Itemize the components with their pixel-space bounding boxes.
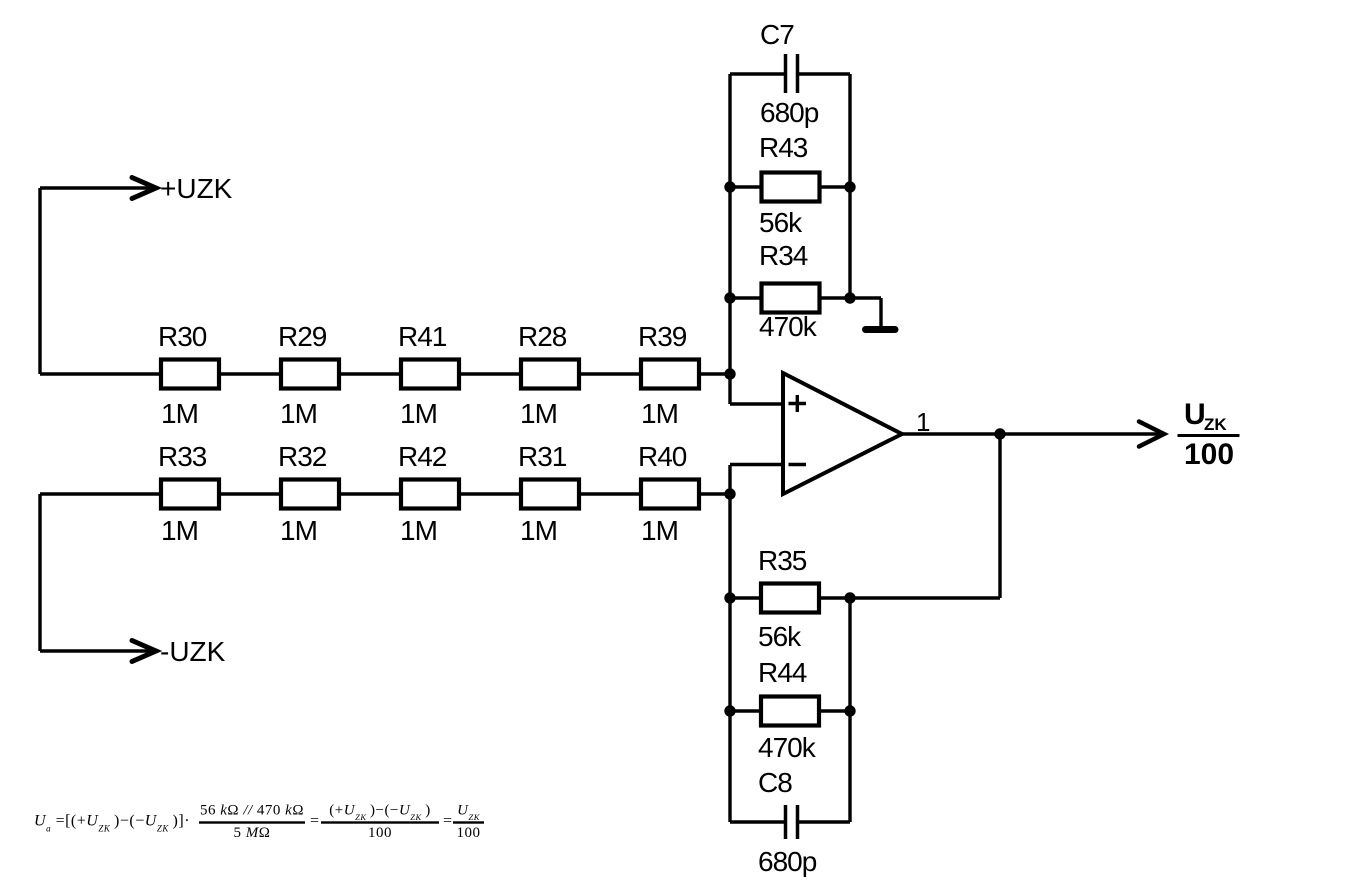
svg-text:1M: 1M	[520, 398, 557, 429]
svg-text:R33: R33	[158, 441, 207, 472]
svg-text:C8: C8	[758, 767, 792, 798]
svg-text:R35: R35	[758, 545, 807, 576]
svg-text:100: 100	[368, 825, 392, 841]
svg-text:100: 100	[1184, 438, 1234, 471]
svg-text:R29: R29	[278, 321, 327, 352]
svg-text:1M: 1M	[641, 398, 678, 429]
svg-text:1M: 1M	[280, 515, 317, 546]
svg-text:1: 1	[916, 407, 930, 437]
svg-text:R31: R31	[518, 441, 567, 472]
svg-text:R28: R28	[518, 321, 567, 352]
svg-text:5 MΩ: 5 MΩ	[234, 825, 271, 841]
svg-text:R44: R44	[758, 657, 807, 688]
svg-text:UZK: UZK	[457, 803, 481, 823]
svg-text:R40: R40	[638, 441, 687, 472]
svg-text:Ua =[(+UZK )−(−UZK )]·: Ua =[(+UZK )−(−UZK )]·	[34, 813, 190, 834]
svg-text:1M: 1M	[161, 515, 198, 546]
svg-text:R34: R34	[759, 240, 808, 271]
svg-text:1M: 1M	[400, 398, 437, 429]
svg-text:680p: 680p	[760, 97, 819, 128]
svg-text:+UZK: +UZK	[160, 173, 233, 204]
svg-text:470k: 470k	[759, 311, 818, 342]
svg-text:R43: R43	[759, 132, 808, 163]
svg-text:56k: 56k	[758, 621, 802, 652]
svg-text:470k: 470k	[758, 732, 817, 763]
svg-text:R39: R39	[638, 321, 687, 352]
svg-text:680p: 680p	[758, 846, 817, 877]
svg-text:-UZK: -UZK	[160, 636, 226, 667]
svg-text:R42: R42	[398, 441, 447, 472]
svg-text:C7: C7	[760, 19, 794, 50]
svg-text:ZK: ZK	[1204, 415, 1227, 434]
svg-text:(+UZK )−(−UZK ): (+UZK )−(−UZK )	[329, 803, 430, 823]
svg-text:100: 100	[457, 825, 481, 841]
svg-text:R30: R30	[158, 321, 207, 352]
svg-text:1M: 1M	[641, 515, 678, 546]
svg-text:56k: 56k	[759, 207, 803, 238]
svg-text:R41: R41	[398, 321, 447, 352]
svg-text:R32: R32	[278, 441, 327, 472]
svg-text:1M: 1M	[400, 515, 437, 546]
svg-text:1M: 1M	[161, 398, 198, 429]
svg-text:56 kΩ // 470 kΩ: 56 kΩ // 470 kΩ	[200, 803, 304, 819]
svg-text:1M: 1M	[520, 515, 557, 546]
svg-text:=: =	[443, 813, 453, 830]
svg-text:1M: 1M	[280, 398, 317, 429]
svg-text:=: =	[310, 813, 320, 830]
svg-text:U: U	[1184, 398, 1206, 431]
